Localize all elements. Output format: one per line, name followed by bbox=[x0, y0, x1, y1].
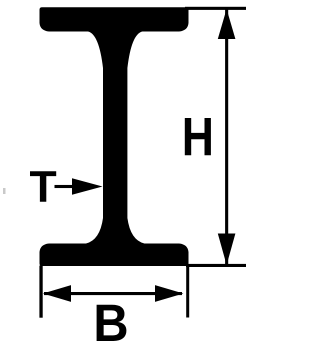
H dimension: upper arrowhead bbox=[218, 9, 236, 39]
I-beam cross-section body bbox=[40, 7, 189, 266]
B dimension: right extension line bbox=[186, 266, 189, 318]
T arrow shaft bbox=[55, 185, 74, 188]
B dimension: left extension line bbox=[39, 266, 42, 318]
label H bbox=[185, 118, 211, 155]
B dimension: left arrowhead bbox=[43, 285, 71, 302]
stray faint tick mark bbox=[3, 188, 6, 194]
B dimension: right arrowhead bbox=[155, 285, 183, 302]
H dimension: lower arrowhead bbox=[218, 234, 236, 266]
B dimension: arrow shaft bbox=[44, 292, 182, 295]
label B bbox=[97, 305, 127, 341]
label T bbox=[30, 171, 56, 202]
H dimension: vertical dimension line bbox=[225, 9, 228, 265]
H dimension: top extension line bbox=[185, 7, 246, 10]
T arrowhead pointing at web bbox=[72, 178, 103, 195]
H dimension: bottom extension line bbox=[186, 264, 246, 267]
